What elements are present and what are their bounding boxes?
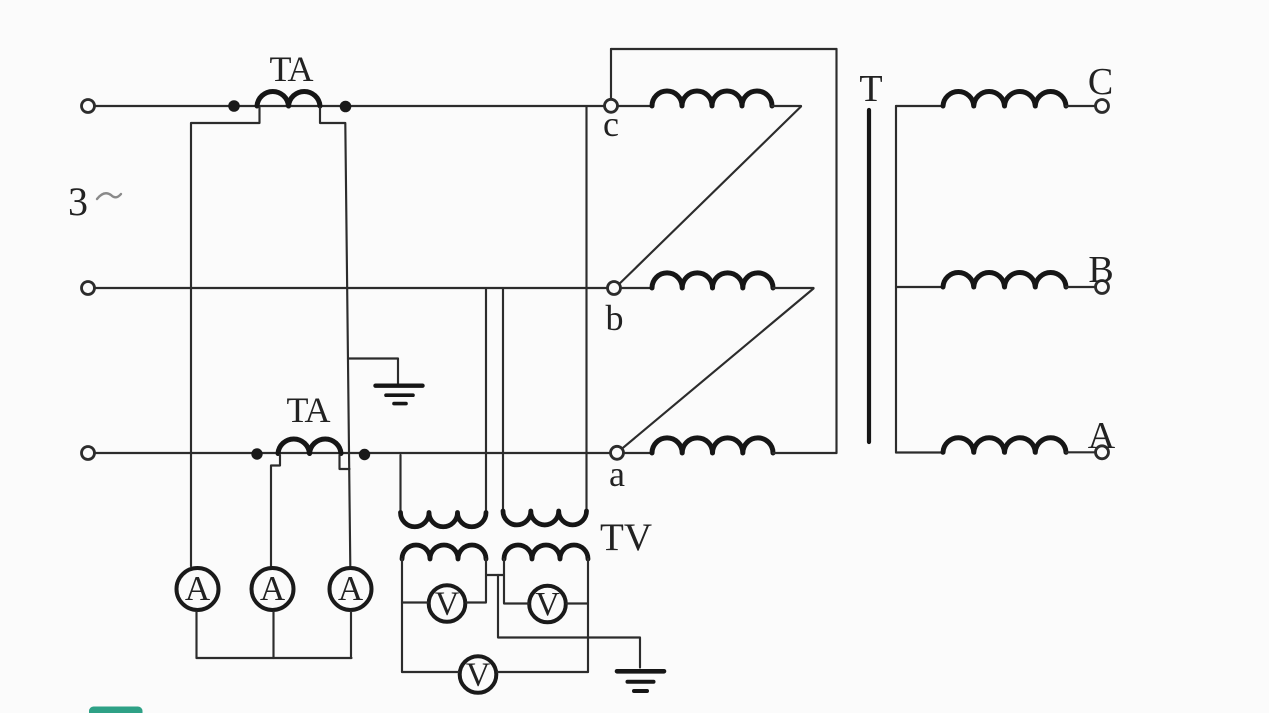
label source 3~ (68, 179, 121, 224)
svg-text:V: V (435, 586, 460, 623)
wire link between TV secondaries (486, 574, 504, 576)
wire voltmeter V3 left lead (402, 671, 459, 673)
wire TV1 secondary left side down to voltmeter bus (401, 559, 403, 672)
node terminal A (1096, 446, 1109, 459)
wire terminal b to winding (620, 287, 652, 289)
transformer T primary winding phase b (652, 273, 773, 288)
svg-text:V: V (535, 586, 560, 623)
wire delta box right side (835, 49, 837, 453)
voltmeter V3 (460, 656, 497, 693)
svg-text:c: c (603, 104, 619, 144)
voltage transformer TV1 primary winding (401, 513, 487, 527)
wire ammeter A2 bottom lead (272, 612, 274, 658)
wire delta diagonal b to a (622, 289, 814, 449)
svg-text:TA: TA (286, 390, 330, 430)
wire winding C to terminal (1066, 105, 1096, 107)
svg-text:A: A (260, 569, 286, 608)
wire voltmeter V1 right lead (466, 601, 486, 603)
node terminal B (1096, 281, 1109, 294)
svg-text:C: C (1088, 61, 1113, 103)
terminal input phase a (82, 447, 95, 460)
node terminal c (605, 99, 618, 112)
wire delta diagonal c to b (620, 107, 801, 284)
ammeter A2 (252, 568, 294, 610)
wire delta box top (611, 48, 837, 50)
wire winding B to terminal (1066, 286, 1096, 288)
wire TV1 primary left side from line a (399, 455, 401, 513)
green tab bottom left (89, 707, 143, 713)
svg-text:B: B (1088, 249, 1113, 291)
transformer T secondary winding phase B (943, 272, 1066, 287)
wire TV2 secondary right side down to voltmeter bus (587, 559, 589, 672)
wire voltmeter V2 right lead (567, 602, 588, 604)
svg-text:3: 3 (68, 179, 88, 224)
node terminal a (611, 446, 624, 459)
wire TA2 secondary left lead to ammeter A2 (271, 455, 280, 566)
wire TV1 secondary right side (485, 559, 487, 602)
wire delta box left drop to terminal c (610, 49, 612, 99)
wire from link to earth point (498, 575, 640, 668)
wire phase line c (94, 105, 605, 107)
svg-text:T: T (859, 68, 882, 110)
wire phase line a (94, 452, 610, 454)
wire ammeter A1 bottom lead (195, 612, 197, 658)
wire voltmeter V1 left lead (402, 601, 428, 603)
wire TA2 secondary right lead joining A3 lead (340, 455, 350, 469)
transformer T secondary winding phase A (943, 438, 1066, 453)
voltage transformer TV1 secondary winding (402, 545, 486, 559)
ground symbol G1 (376, 386, 423, 404)
wire stub bus to winding C (896, 105, 943, 107)
node terminal C (1096, 100, 1109, 113)
svg-text:V: V (466, 657, 491, 694)
wire from line b down to TV2 primary left side (502, 289, 504, 511)
terminal input phase b (82, 282, 95, 295)
polarity dot TA1 left (228, 100, 240, 112)
wire TA1 secondary right lead down to ammeter A3 (320, 108, 350, 567)
svg-text:A: A (185, 569, 211, 608)
wire stub bus to winding B (896, 286, 943, 288)
wire winding A to terminal (1066, 451, 1096, 453)
svg-text:A: A (338, 569, 364, 608)
wire terminal a to winding (623, 452, 652, 454)
ground symbol G2 (617, 671, 664, 691)
wire ammeter common bus (197, 657, 352, 659)
wire phase line b (94, 287, 607, 289)
voltage transformer TV2 primary winding (503, 511, 587, 525)
polarity dot TA2 right (359, 449, 370, 460)
transformer T primary winding phase c (652, 91, 772, 106)
current transformer TA2 secondary coil (278, 439, 341, 454)
wire voltmeter V2 left lead (504, 602, 528, 604)
svg-text:a: a (609, 454, 625, 494)
wire TV2 secondary left side (503, 559, 505, 603)
wire after winding b (773, 287, 814, 289)
voltmeter V2 (529, 586, 566, 623)
node terminal b (608, 282, 621, 295)
wire TA1 secondary left lead to ammeter A1 (191, 108, 260, 567)
wire secondary star bus (895, 106, 897, 453)
transformer T core bar (867, 110, 871, 442)
wire from line c down to TV2 primary right side (585, 107, 587, 511)
transformer T secondary winding phase C (943, 91, 1066, 106)
svg-text:TA: TA (269, 49, 313, 89)
svg-text:A: A (1088, 415, 1116, 457)
polarity dot TA1 right (340, 101, 352, 113)
transformer T primary winding phase a (652, 438, 773, 453)
wire from line b down to TV1 primary right side (485, 289, 487, 513)
wire ground tap from TA1 secondary lead (348, 359, 398, 385)
svg-text:b: b (606, 298, 624, 338)
ammeter A1 (177, 568, 219, 610)
voltmeter V1 (429, 585, 466, 622)
wire after winding c (772, 105, 801, 107)
svg-text:TV: TV (600, 516, 652, 559)
wire after winding a to box (773, 452, 837, 454)
polarity dot TA2 left (251, 448, 262, 459)
wire ammeter A3 bottom lead (350, 612, 352, 658)
wire voltmeter V3 right lead (498, 671, 589, 673)
wire terminal c to winding (617, 105, 652, 107)
voltage transformer TV2 secondary winding (504, 545, 588, 559)
current transformer TA1 secondary coil (257, 91, 320, 106)
ammeter A3 (330, 568, 372, 610)
terminal input phase c (82, 100, 95, 113)
wire stub bus to winding A (896, 451, 943, 453)
